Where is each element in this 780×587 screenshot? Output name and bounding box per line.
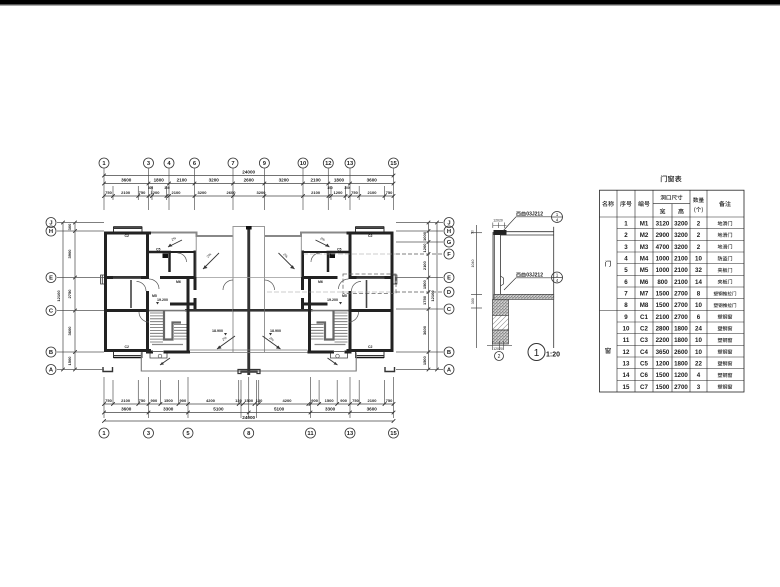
floor slab speckled: [494, 294, 554, 299]
svg-text:1200: 1200: [151, 190, 161, 195]
svg-text:24000: 24000: [242, 170, 255, 175]
svg-text:3200: 3200: [674, 244, 688, 251]
svg-text:3200: 3200: [209, 178, 220, 183]
svg-text:1500: 1500: [422, 355, 427, 365]
svg-text:C4: C4: [640, 349, 648, 356]
svg-text:3300: 3300: [325, 407, 336, 412]
svg-text:130: 130: [235, 398, 242, 403]
svg-text:3600: 3600: [367, 178, 378, 183]
svg-text:C5: C5: [640, 361, 648, 368]
svg-text:M5: M5: [640, 267, 649, 274]
svg-text:2700: 2700: [674, 291, 688, 298]
svg-text:1200: 1200: [422, 243, 427, 253]
grid D dashed line right: [267, 291, 396, 293]
svg-text:900: 900: [311, 398, 318, 403]
svg-text:15: 15: [390, 431, 397, 437]
svg-text:M5: M5: [152, 294, 157, 298]
svg-text:2100: 2100: [121, 190, 131, 195]
svg-text:4: 4: [624, 256, 628, 263]
svg-text:2100: 2100: [368, 190, 378, 195]
level 18.900 left: [212, 329, 227, 336]
svg-text:15: 15: [623, 384, 630, 391]
svg-text:8: 8: [624, 302, 628, 309]
svg-text:2100: 2100: [656, 314, 670, 321]
data rows: [623, 221, 737, 391]
svg-text:10: 10: [695, 302, 702, 309]
bubble 2: [495, 352, 504, 361]
svg-text:3200: 3200: [674, 232, 688, 239]
svg-text:750: 750: [351, 190, 358, 195]
svg-text:M6: M6: [640, 279, 649, 286]
grid F dashed line right: [303, 253, 396, 255]
title circle 1:20: [528, 344, 545, 361]
svg-text:14: 14: [623, 372, 630, 379]
svg-text:22: 22: [695, 361, 702, 368]
svg-text:19.200: 19.200: [157, 298, 168, 302]
svg-text:1800: 1800: [674, 337, 688, 344]
svg-text:3600: 3600: [67, 326, 72, 336]
svg-text:4700: 4700: [656, 244, 670, 251]
section callout dashed box: [343, 274, 396, 294]
svg-text:2600: 2600: [674, 349, 688, 356]
level 19.200 right: [327, 298, 342, 305]
svg-text:130: 130: [256, 398, 263, 403]
left unit: [103, 227, 250, 376]
top dim labels row2: [121, 178, 377, 183]
svg-text:1: 1: [534, 348, 540, 359]
svg-text:3200: 3200: [674, 221, 688, 228]
svg-text:1500: 1500: [244, 398, 254, 403]
svg-text:900: 900: [180, 398, 187, 403]
svg-text:32: 32: [695, 267, 702, 274]
svg-text:300: 300: [148, 186, 154, 190]
svg-text:2700: 2700: [674, 384, 688, 391]
svg-text:C5: C5: [337, 248, 342, 252]
svg-text:10: 10: [695, 256, 702, 263]
svg-text:5100: 5100: [213, 407, 224, 412]
left dim line: [471, 225, 482, 348]
svg-text:50: 50: [471, 230, 475, 234]
svg-text:E: E: [447, 276, 451, 282]
partition wall right mid room: [366, 280, 368, 308]
svg-text:18.900: 18.900: [212, 329, 223, 333]
svg-text:M6: M6: [176, 280, 181, 284]
svg-text:2100: 2100: [310, 178, 321, 183]
svg-text:300: 300: [327, 186, 333, 190]
svg-text:2: 2: [697, 244, 701, 251]
wall below hatched: [493, 315, 509, 330]
svg-text:1: 1: [624, 221, 628, 228]
svg-text:2100: 2100: [311, 190, 321, 195]
svg-text:1500: 1500: [422, 279, 427, 289]
svg-text:3200: 3200: [198, 190, 208, 195]
svg-text:F: F: [447, 252, 451, 258]
svg-text:M1: M1: [640, 221, 649, 228]
svg-text:11: 11: [307, 431, 314, 437]
svg-text:750: 750: [352, 398, 359, 403]
svg-text:2: 2: [498, 354, 501, 360]
svg-text:1000: 1000: [656, 256, 670, 263]
top slab hatched: [494, 230, 507, 235]
svg-text:2100: 2100: [674, 267, 688, 274]
svg-text:G: G: [447, 240, 452, 246]
grid E line across terrace: [197, 277, 302, 279]
svg-text:1500: 1500: [325, 398, 335, 403]
svg-text:12100: 12100: [430, 290, 435, 302]
svg-text:M4: M4: [640, 256, 649, 263]
svg-text:900: 900: [340, 398, 347, 403]
title: [661, 175, 682, 182]
svg-text:12020: 12020: [493, 347, 503, 351]
svg-text:2600: 2600: [244, 178, 255, 183]
svg-text:2900: 2900: [656, 232, 670, 239]
svg-text:5: 5: [624, 267, 628, 274]
drip notch: [501, 276, 504, 286]
slope arrow terrace left small: [160, 240, 235, 365]
svg-text:3600: 3600: [121, 407, 132, 412]
svg-text:13: 13: [347, 161, 354, 167]
svg-text:8: 8: [697, 291, 701, 298]
svg-text:H: H: [49, 229, 53, 235]
svg-text:11: 11: [623, 337, 630, 344]
window bump right wall: [394, 275, 397, 284]
svg-text:M3: M3: [640, 244, 649, 251]
svg-text:4200: 4200: [283, 398, 293, 403]
svg-text:C5: C5: [156, 248, 161, 252]
svg-text:2700: 2700: [674, 314, 688, 321]
top dim labels row3: [105, 186, 393, 195]
svg-text:6: 6: [624, 279, 628, 286]
svg-text:E: E: [49, 276, 53, 282]
window bump left wall: [101, 275, 104, 284]
partition wall left mid room: [130, 280, 132, 308]
svg-text:3200: 3200: [257, 190, 267, 195]
center canopy top edge: [233, 350, 265, 352]
wall footing speckled: [493, 330, 509, 344]
svg-text:1500: 1500: [656, 291, 670, 298]
svg-text:2700: 2700: [674, 302, 688, 309]
svg-text:C3: C3: [640, 337, 648, 344]
svg-text:2800: 2800: [656, 326, 670, 333]
ceiling double line: [501, 232, 554, 235]
level 18.900 right: [269, 329, 281, 336]
header text: [602, 195, 731, 214]
svg-text:12100: 12100: [56, 290, 61, 302]
center C wall continuation: [233, 309, 265, 312]
svg-text:C7: C7: [640, 384, 648, 391]
svg-text:300: 300: [471, 298, 475, 304]
slope pct labels left: [171, 236, 228, 342]
svg-text:24000: 24000: [242, 415, 255, 420]
svg-text:24: 24: [695, 326, 702, 333]
svg-text:1:20: 1:20: [546, 352, 560, 359]
table grid: [600, 190, 745, 392]
svg-text:1500: 1500: [656, 384, 670, 391]
svg-text:C2: C2: [368, 345, 373, 349]
svg-text:C2: C2: [368, 234, 373, 238]
level 19.200 left: [156, 298, 168, 305]
svg-text:13: 13: [347, 431, 354, 437]
svg-text:10: 10: [695, 337, 702, 344]
bottom dim: [487, 341, 512, 350]
svg-text:7: 7: [624, 291, 628, 298]
svg-text:13: 13: [623, 361, 630, 368]
group labels: [605, 260, 610, 266]
svg-text:2: 2: [697, 232, 701, 239]
top grid extension lines: [104, 169, 394, 211]
svg-text:3300: 3300: [163, 407, 174, 412]
svg-text:C2: C2: [125, 345, 130, 349]
svg-text:1000: 1000: [422, 231, 427, 241]
svg-text:J: J: [49, 221, 52, 227]
svg-text:10: 10: [300, 161, 306, 167]
svg-text:2: 2: [697, 221, 701, 228]
svg-text:2100: 2100: [674, 256, 688, 263]
svg-text:6: 6: [697, 314, 701, 321]
svg-text:1800: 1800: [334, 178, 345, 183]
svg-text:12: 12: [623, 349, 630, 356]
svg-text:2200: 2200: [656, 337, 670, 344]
svg-text:3600: 3600: [422, 325, 427, 335]
svg-text:C1: C1: [640, 314, 648, 321]
top dim lines: [104, 176, 394, 197]
svg-text:M6: M6: [318, 280, 323, 284]
svg-text:14: 14: [695, 279, 702, 286]
svg-text:D: D: [447, 290, 451, 296]
svg-text:3200: 3200: [279, 178, 290, 183]
svg-text:1500: 1500: [656, 372, 670, 379]
svg-text:1500: 1500: [67, 356, 72, 366]
svg-text:M8: M8: [640, 302, 649, 309]
svg-text:1200: 1200: [674, 372, 688, 379]
svg-text:C2: C2: [640, 326, 648, 333]
svg-text:3650: 3650: [656, 349, 670, 356]
svg-text:C6: C6: [640, 372, 648, 379]
svg-text:750: 750: [386, 190, 393, 195]
svg-text:M2: M2: [640, 232, 649, 239]
svg-text:2100: 2100: [674, 279, 688, 286]
svg-text:1500: 1500: [656, 302, 670, 309]
svg-text:12020: 12020: [493, 219, 503, 223]
svg-text:B: B: [447, 350, 451, 356]
svg-text:750: 750: [105, 190, 112, 195]
svg-text:B: B: [49, 350, 53, 356]
svg-text:12: 12: [325, 161, 331, 167]
svg-text:3: 3: [697, 384, 701, 391]
svg-text:3600: 3600: [367, 407, 378, 412]
svg-text:10: 10: [695, 349, 702, 356]
svg-text:M7: M7: [640, 291, 649, 298]
svg-text:2: 2: [624, 232, 628, 239]
svg-text:H: H: [447, 229, 451, 235]
svg-text:M5: M5: [342, 294, 347, 298]
svg-text:800: 800: [657, 279, 668, 286]
dimension tick marks: [61, 174, 439, 423]
slope pct labels right: [268, 236, 325, 342]
svg-text:2750: 2750: [67, 289, 72, 299]
svg-text:9: 9: [624, 314, 628, 321]
svg-text:5100: 5100: [274, 407, 285, 412]
right edge: [553, 227, 555, 348]
svg-text:3: 3: [624, 244, 628, 251]
top black bar: [0, 0, 780, 4]
room labels: [125, 234, 373, 349]
svg-text:7: 7: [231, 161, 234, 167]
svg-text:2100: 2100: [172, 190, 182, 195]
svg-text:1750: 1750: [422, 295, 427, 305]
svg-text:900: 900: [151, 398, 158, 403]
svg-text:300: 300: [344, 186, 350, 190]
label 2: [516, 272, 525, 277]
svg-text:1200: 1200: [656, 361, 670, 368]
arrowheads right: [276, 244, 338, 365]
wall below speckled: [493, 299, 509, 315]
svg-text:10: 10: [623, 326, 630, 333]
label 1: [516, 211, 525, 216]
svg-text:4: 4: [697, 372, 701, 379]
party wall footing: [238, 370, 260, 374]
svg-text:J: J: [447, 221, 450, 227]
right unit mirrored: [247, 227, 394, 376]
top small dim: [493, 223, 507, 229]
svg-text:1800: 1800: [674, 326, 688, 333]
svg-text:750: 750: [105, 398, 112, 403]
svg-text:2100: 2100: [121, 398, 131, 403]
svg-text:750: 750: [386, 398, 393, 403]
svg-text:C2: C2: [125, 234, 130, 238]
svg-text:19.200: 19.200: [327, 298, 338, 302]
svg-text:2100: 2100: [422, 260, 427, 270]
wall verticals: [493, 232, 501, 331]
svg-text:3120: 3120: [656, 221, 670, 228]
svg-text:3600: 3600: [121, 178, 132, 183]
svg-text:15: 15: [390, 161, 397, 167]
svg-text:2100: 2100: [177, 178, 188, 183]
svg-text:1000: 1000: [656, 267, 670, 274]
svg-text:1040: 1040: [471, 260, 475, 268]
svg-text:1800: 1800: [674, 361, 688, 368]
svg-text:1500: 1500: [164, 398, 174, 403]
arrows right unit: [263, 240, 338, 365]
svg-text:300: 300: [67, 223, 72, 230]
svg-text:1200: 1200: [334, 190, 344, 195]
svg-text:2100: 2100: [368, 398, 378, 403]
arrowheads left: [160, 244, 222, 365]
svg-text:18.900: 18.900: [270, 329, 281, 333]
svg-text:4200: 4200: [206, 398, 216, 403]
svg-text:1800: 1800: [154, 178, 165, 183]
svg-text:300: 300: [164, 186, 170, 190]
svg-text:3900: 3900: [67, 249, 72, 259]
